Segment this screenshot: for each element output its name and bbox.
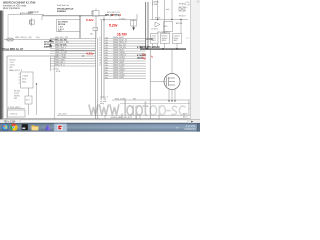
svg-text:GM5_J20(L)_L_(W): GM5_J20(L)_L_(W): [15, 37, 32, 39]
svg-text:T6: T6: [99, 50, 101, 52]
svg-text:RT321: RT321: [179, 16, 185, 18]
svg-text:DB4: DB4: [105, 67, 108, 69]
svg-text:W45L: W45L: [162, 40, 167, 42]
svg-text:5B4: 5B4: [105, 47, 108, 49]
svg-text:B18M2/3: B18M2/3: [57, 11, 67, 13]
svg-text:FB4: FB4: [105, 72, 108, 74]
svg-text:2B4: 2B4: [105, 40, 108, 42]
svg-text:+5VSUS_AND_55R_W: +5VSUS_AND_55R_W: [110, 116, 130, 119]
svg-text:EB4: EB4: [105, 70, 108, 72]
svg-text:T5: T5: [99, 47, 101, 49]
svg-text:4c2: 4c2: [91, 14, 94, 16]
svg-text:RT300: RT300: [179, 4, 186, 6]
svg-text:B.THR: B.THR: [137, 47, 143, 49]
svg-text:T4: T4: [99, 45, 101, 47]
svg-text:AT15: AT15: [183, 116, 187, 119]
svg-text:T9: T9: [99, 57, 101, 59]
svg-text:T7: T7: [99, 52, 101, 54]
svg-text:SM3 R1CH CH34567 K1 17/09: SM3 R1CH CH34567 K1 17/09: [3, 1, 36, 4]
svg-text:16.79#: 16.79#: [117, 33, 127, 37]
svg-text:8B4: 8B4: [105, 55, 108, 57]
svg-text:0g: 0g: [143, 56, 146, 60]
svg-text:T8: T8: [99, 55, 101, 57]
svg-text:4B2: 4B2: [90, 34, 93, 36]
svg-text:CB4: CB4: [105, 65, 108, 67]
svg-text:(W): (W): [133, 98, 136, 100]
svg-text:T3: T3: [99, 42, 101, 44]
svg-text:B55: B55: [164, 26, 167, 28]
svg-text:silver importants: silver importants: [3, 7, 21, 10]
svg-text:8T322: 8T322: [155, 18, 160, 20]
svg-text:AT345: AT345: [146, 38, 154, 41]
svg-text:5.12v: 5.12v: [86, 18, 94, 22]
svg-text:4w5: 4w5: [166, 9, 169, 11]
svg-text:CT316: CT316: [119, 18, 126, 20]
svg-text:CT314_MK3_L: CT314_MK3_L: [8, 107, 22, 109]
svg-text:CT450: CT450: [22, 76, 29, 78]
svg-text:4W5: 4W5: [174, 40, 178, 42]
svg-text:AT 4750U: AT 4750U: [58, 20, 68, 23]
svg-text:GMA_SLOT_4: GMA_SLOT_4: [9, 69, 23, 72]
svg-text:T1: T1: [99, 37, 101, 39]
svg-text:4B4: 4B4: [105, 45, 108, 47]
svg-text:6B4: 6B4: [105, 50, 108, 52]
svg-text:1B4: 1B4: [105, 37, 108, 39]
svg-text:w4rg: w4rg: [100, 103, 104, 105]
svg-text:APPROXIMATE: APPROXIMATE: [20, 12, 34, 15]
svg-text:4.23v: 4.23v: [86, 51, 94, 55]
svg-text:GB4: GB4: [105, 75, 108, 77]
svg-text:GM_4W5L: GM_4W5L: [58, 113, 67, 115]
svg-text:9B4: 9B4: [105, 57, 108, 59]
svg-text:PCnet MB1 for LP: PCnet MB1 for LP: [2, 48, 23, 51]
svg-text:T2: T2: [99, 40, 101, 42]
svg-text:Fred Sub List: Fred Sub List: [57, 4, 69, 7]
svg-text:4-(L): 4-(L): [36, 37, 40, 39]
svg-text:B.22#(MTL)28A(S): B.22#(MTL)28A(S): [140, 46, 160, 49]
svg-text:C12: C12: [29, 23, 32, 25]
svg-text:AT324L: AT324L: [176, 22, 182, 25]
svg-text:7B4: 7B4: [105, 52, 108, 54]
svg-text:MTL28A(MTL): MTL28A(MTL): [157, 31, 170, 34]
svg-text:HB4: HB4: [105, 77, 108, 79]
svg-text:B5W_4L5(W): B5W_4L5(W): [115, 98, 126, 100]
svg-text:CT314 4: CT314 4: [10, 114, 19, 116]
svg-text:3B4: 3B4: [105, 42, 108, 44]
svg-text:RT15: RT15: [183, 114, 188, 116]
svg-text:TB: TB: [99, 62, 101, 64]
svg-text:BB4: BB4: [105, 62, 108, 64]
svg-text:GM5W_14BW: GM5W_14BW: [113, 77, 124, 79]
svg-text:3 55A: 3 55A: [152, 3, 158, 6]
svg-text:8/18/2015: 8/18/2015: [185, 128, 197, 131]
svg-text:5.23v: 5.23v: [109, 23, 118, 27]
svg-text:CT321 L: CT321 L: [151, 29, 158, 31]
svg-text:GM05_W_LL: GM05_W_LL: [55, 65, 65, 67]
svg-text:B4MW2: B4MW2: [44, 45, 53, 48]
svg-text:d-js: d-js: [186, 38, 189, 40]
